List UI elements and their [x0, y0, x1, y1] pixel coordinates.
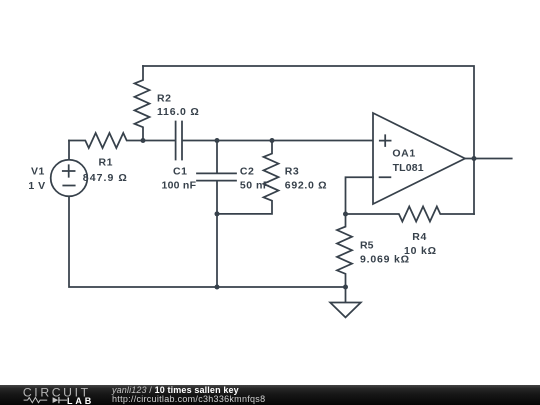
node output: [472, 156, 477, 161]
wire output stub: [465, 158, 512, 160]
wire V1 top to R1 node: [68, 141, 70, 160]
svg-text:100 nF: 100 nF: [162, 180, 197, 192]
svg-text:R1: R1: [99, 157, 113, 169]
capacitor C1: [143, 122, 217, 160]
svg-text:TL081: TL081: [393, 162, 425, 174]
resistor R1: [69, 133, 143, 148]
wire node to R3 and op-amp: [217, 140, 373, 142]
footer bar: [0, 385, 540, 405]
node R1/R2/C1: [141, 138, 146, 143]
ground: [330, 303, 361, 318]
wire C2 bottom branch down: [216, 214, 218, 287]
voltage source V1: [51, 160, 88, 197]
wire inverting input: [346, 177, 374, 214]
wire to ground: [345, 287, 347, 303]
svg-text:847.9 Ω: 847.9 Ω: [83, 172, 128, 184]
node R3 top: [270, 138, 275, 143]
op-amp OA1: [373, 113, 465, 204]
resistor R5: [337, 214, 352, 287]
svg-text:V1: V1: [31, 166, 45, 178]
svg-text:OA1: OA1: [392, 147, 415, 159]
node C2/R3 bottom: [215, 211, 220, 216]
svg-text:R5: R5: [360, 240, 374, 252]
node bottom rail / R5 / ground: [343, 285, 348, 290]
svg-text:116.0 Ω: 116.0 Ω: [157, 106, 199, 118]
node bottom rail / C2 branch: [215, 285, 220, 290]
svg-text:C2: C2: [240, 166, 254, 178]
node C1/C2: [215, 138, 220, 143]
svg-text:R3: R3: [285, 166, 299, 178]
svg-text:50 nF: 50 nF: [240, 180, 270, 192]
svg-text:1 V: 1 V: [28, 180, 45, 192]
resistor R3: [217, 141, 279, 214]
capacitor C2: [197, 141, 236, 214]
resistor R4: [346, 207, 475, 222]
svg-text:LAB: LAB: [67, 395, 94, 405]
svg-text:9.069 kΩ: 9.069 kΩ: [360, 254, 410, 266]
svg-text:C1: C1: [173, 166, 187, 178]
wire top rail from R2 top to feedback column: [143, 66, 474, 214]
svg-text:692.0 Ω: 692.0 Ω: [285, 180, 327, 192]
wire V1 bottom rail: [69, 196, 346, 287]
svg-text:R4: R4: [412, 231, 427, 243]
CircuitLab footer logo (decorative): [0, 385, 108, 405]
node inverting/R4/R5: [343, 212, 348, 217]
svg-text:R2: R2: [157, 93, 171, 105]
resistor R2: [135, 66, 150, 141]
